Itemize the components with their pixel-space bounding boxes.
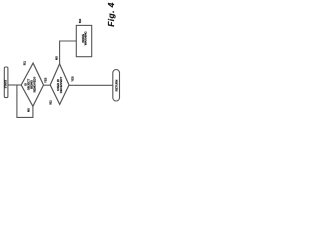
svg-text:RECEIVED?: RECEIVED?	[59, 76, 63, 93]
svg-text:RETURN: RETURN	[114, 80, 118, 92]
svg-text:YES: YES	[71, 76, 75, 81]
svg-text:512: 512	[49, 100, 53, 105]
svg-text:START: START	[4, 79, 8, 88]
svg-text:REMOVED?: REMOVED?	[32, 76, 36, 92]
svg-text:Fig. 4: Fig. 4	[106, 2, 116, 27]
svg-text:YES: YES	[44, 77, 48, 82]
svg-text:511: 511	[23, 61, 27, 66]
svg-text:510: 510	[78, 18, 82, 23]
svg-text:NO: NO	[26, 108, 30, 112]
svg-text:NO: NO	[55, 56, 59, 60]
svg-text:WARNING: WARNING	[84, 31, 88, 46]
